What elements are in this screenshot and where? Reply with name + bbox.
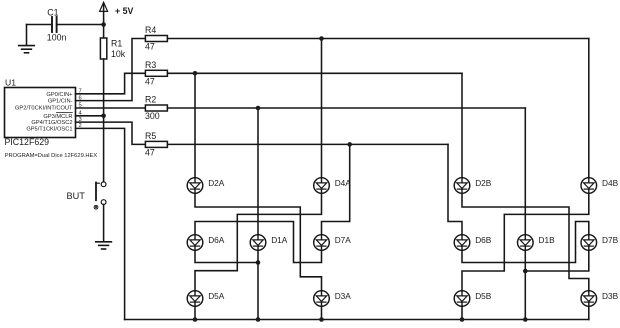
wire D2A to D3A: [195, 193, 322, 291]
wire D6B to D7B: [462, 222, 589, 263]
capacitor C1: [27, 8, 104, 43]
svg-text:100n: 100n: [47, 33, 67, 43]
wire D7A to D6A: [195, 222, 322, 263]
svg-text:C1: C1: [47, 8, 58, 18]
junction D6A/D1A: [256, 260, 261, 265]
wire R3 net: [167, 73, 462, 177]
svg-text:R1: R1: [111, 39, 122, 49]
wire D1A to rail: [257, 250, 259, 319]
svg-text:D5A: D5A: [208, 291, 225, 301]
svg-text:47: 47: [145, 42, 155, 52]
LED D7B: [581, 235, 619, 251]
svg-text:D7A: D7A: [335, 235, 352, 245]
svg-text:+ 5V: + 5V: [115, 6, 133, 16]
wire D2B to D3B: [462, 193, 589, 291]
wire R1 to BUT: [103, 59, 105, 182]
wire D7B cathode to D1B net: [525, 250, 589, 271]
svg-text:GP1/CIN-: GP1/CIN-: [48, 99, 73, 105]
svg-text:D5B: D5B: [475, 291, 492, 301]
LED D2B: [454, 178, 492, 194]
svg-text:GP4/T1G/OSC2: GP4/T1G/OSC2: [31, 120, 72, 126]
svg-text:10k: 10k: [111, 49, 126, 59]
resistor R4: [145, 25, 167, 52]
LED D1A: [250, 235, 288, 251]
svg-text:D3A: D3A: [335, 291, 352, 301]
svg-text:D2B: D2B: [475, 178, 492, 188]
svg-text:GP5/T1CKI/OSC1: GP5/T1CKI/OSC1: [26, 127, 72, 133]
LED D6B: [454, 235, 492, 251]
svg-text:R3: R3: [145, 60, 156, 70]
svg-text:GP3/MCLR: GP3/MCLR: [43, 114, 72, 120]
svg-text:PROGRAM=Dual Dice 12F629.HEX: PROGRAM=Dual Dice 12F629.HEX: [5, 153, 98, 159]
svg-text:D2A: D2A: [208, 178, 225, 188]
junction +5V/C1: [101, 22, 106, 27]
junction rail/D1B: [523, 317, 528, 322]
resistor R2: [145, 95, 167, 122]
svg-text:GP2/T0CKI/INT/COUT: GP2/T0CKI/INT/COUT: [15, 106, 73, 112]
svg-text:U1: U1: [5, 77, 16, 87]
svg-text:BUT: BUT: [67, 191, 86, 201]
LED D7A: [314, 235, 352, 251]
wire D1B to rail: [524, 250, 526, 319]
IC U1 PIC12F629: [5, 77, 98, 159]
svg-text:R2: R2: [145, 95, 156, 105]
LED D3A: [314, 291, 352, 307]
svg-text:D6A: D6A: [208, 235, 225, 245]
svg-text:D4A: D4A: [335, 178, 352, 188]
LED D6A: [187, 235, 225, 251]
LED D1B: [518, 235, 556, 251]
svg-text:D4B: D4B: [602, 178, 619, 188]
wire R4 net: [167, 39, 588, 178]
svg-text:47: 47: [145, 77, 155, 87]
wire D4A to D5A: [195, 193, 322, 291]
wire D3A to rail: [321, 306, 323, 320]
junction rail/D3A: [319, 317, 324, 322]
junction rail/D5A: [193, 317, 198, 322]
junction rail/D5B: [460, 317, 465, 322]
wire GP1 pin6 to R4: [76, 39, 146, 101]
resistor R5: [145, 131, 167, 158]
wire BUT to ground: [103, 205, 105, 242]
svg-text:D1A: D1A: [271, 235, 288, 245]
LED D4A: [314, 178, 352, 194]
svg-text:D1B: D1B: [539, 235, 556, 245]
junction R4/D4A: [319, 36, 324, 41]
ground (C1): [19, 25, 35, 53]
wire D5B to rail: [461, 306, 463, 320]
junction R2/D1A: [256, 106, 261, 111]
LED D2A: [187, 178, 225, 194]
svg-text:D3B: D3B: [602, 291, 619, 301]
wire GP5 pin2 to cathode rail: [76, 128, 125, 319]
wire GP3 pin4 to R1 net: [76, 115, 104, 117]
junction R1/GP3: [101, 114, 106, 119]
LED D4B: [581, 178, 619, 194]
wire R2 net: [167, 108, 525, 235]
LED D5B: [454, 291, 492, 307]
svg-text:47: 47: [145, 148, 155, 158]
LED D3B: [581, 291, 619, 307]
wire GP4 pin3 to R5: [76, 122, 146, 144]
wire +5V to R1: [103, 25, 105, 39]
svg-text:D6B: D6B: [475, 235, 492, 245]
pushbutton BUT: [67, 182, 107, 209]
wire D4B to D5B: [462, 193, 589, 291]
wire GP2 pin5 to R2: [76, 107, 146, 109]
junction R5/D7A: [347, 142, 352, 147]
svg-text:PIC12F629: PIC12F629: [5, 137, 50, 147]
wire GP0 pin7 to R3: [76, 73, 146, 94]
wire cathode rail: [125, 319, 589, 321]
wire R5 net: [167, 144, 462, 234]
junction D7B/D1B: [523, 269, 528, 274]
svg-text:D7B: D7B: [602, 235, 619, 245]
power +5V: [100, 2, 134, 24]
svg-text:300: 300: [145, 111, 160, 121]
wire D5A to rail: [194, 306, 196, 320]
svg-text:R5: R5: [145, 131, 156, 141]
wire D6A cathode to D1A net: [195, 250, 258, 262]
junction rail/D1A: [256, 317, 261, 322]
resistor R1: [100, 38, 125, 59]
svg-text:R4: R4: [145, 25, 156, 35]
svg-text:GP0/CIN+: GP0/CIN+: [46, 92, 73, 98]
junction R3/D2A: [193, 71, 198, 76]
wire D3B to rail: [588, 306, 590, 320]
ground (BUT): [96, 242, 112, 249]
resistor R3: [145, 60, 167, 87]
LED D5A: [187, 291, 225, 307]
